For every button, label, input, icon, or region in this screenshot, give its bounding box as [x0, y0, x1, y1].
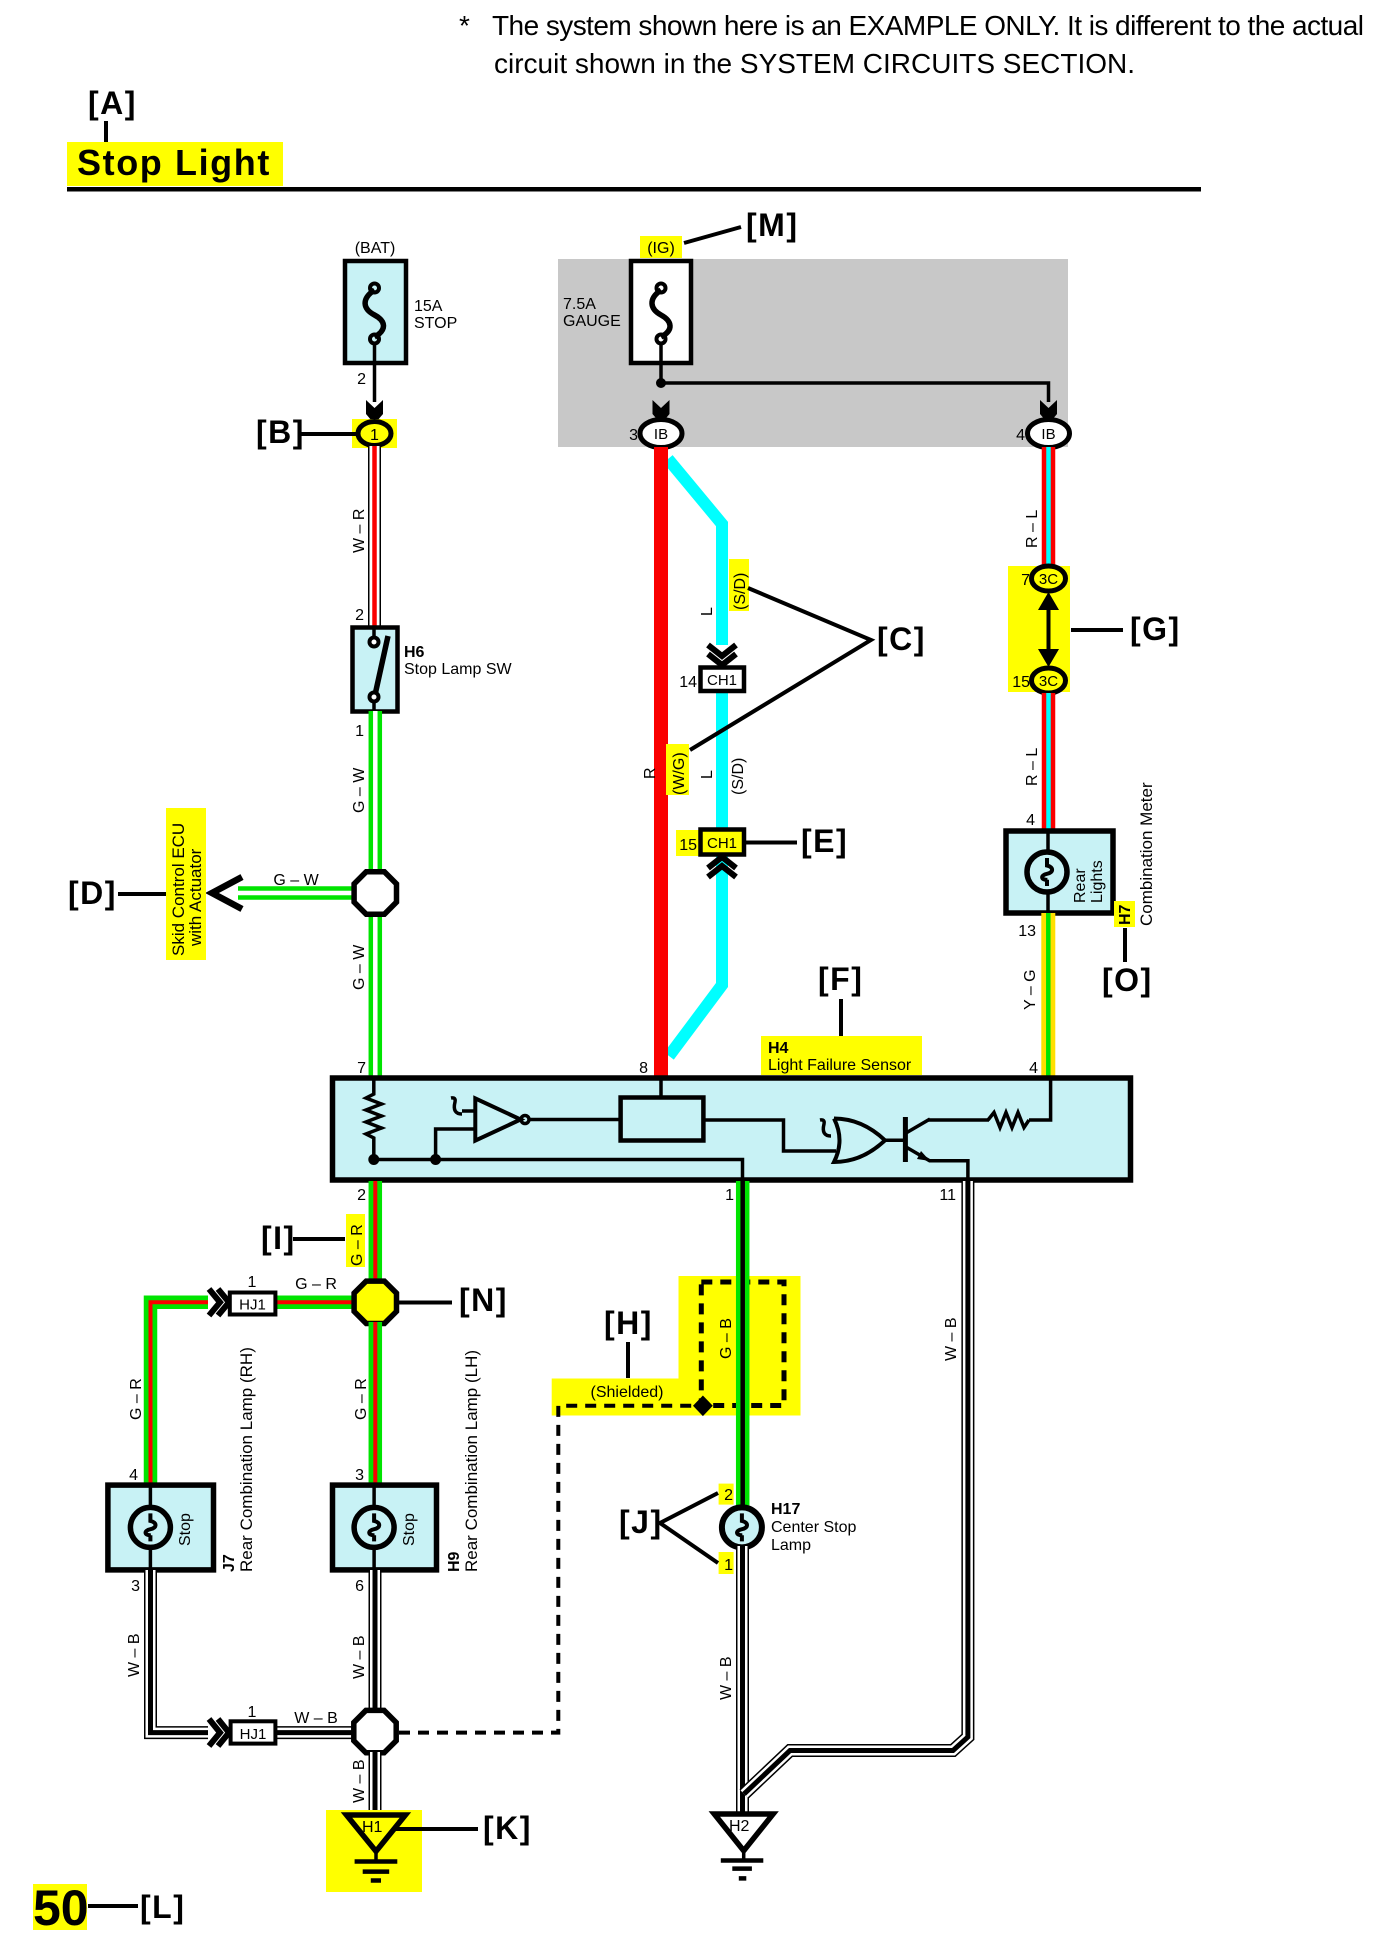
wire W-B pin 11 down [744, 1181, 968, 1794]
shielded yellow region upper [679, 1276, 801, 1416]
svg-text:6: 6 [355, 1578, 364, 1595]
svg-text:CH1: CH1 [707, 835, 737, 852]
svg-text:1: 1 [724, 1557, 733, 1574]
svg-text:IB: IB [654, 426, 668, 443]
svg-text:1: 1 [248, 1274, 257, 1291]
header note text [459, 10, 1363, 79]
shield junction diamond [693, 1396, 713, 1417]
svg-text:[I]: [I] [261, 1220, 296, 1256]
svg-text:L: L [699, 770, 716, 779]
svg-text:H17: H17 [771, 1501, 800, 1518]
wire G-W vertical H6 to sensor [369, 711, 383, 1079]
svg-text:G – W: G – W [351, 767, 368, 813]
wire fuse to connector B [373, 343, 377, 402]
junction arrows between 3C [1047, 604, 1051, 655]
svg-text:15: 15 [1012, 674, 1030, 691]
lamp H17 bulb [722, 1507, 762, 1547]
svg-text:L: L [699, 607, 716, 616]
svg-text:[F]: [F] [818, 961, 863, 997]
svg-text:[H]: [H] [604, 1305, 653, 1341]
svg-text:1: 1 [725, 1187, 734, 1204]
svg-text:[L]: [L] [140, 1889, 185, 1925]
line from label M [684, 227, 741, 243]
sensor internal emitter line [929, 1161, 968, 1180]
svg-text:1: 1 [355, 723, 364, 740]
svg-text:Center Stop: Center Stop [771, 1519, 856, 1536]
(IG) highlight [640, 236, 682, 258]
svg-text:[D]: [D] [68, 875, 117, 911]
wire L cyan middle [716, 691, 728, 831]
svg-text:[B]: [B] [256, 414, 305, 450]
svg-text:W – B: W – B [718, 1656, 735, 1700]
connector CH1 upper [701, 668, 745, 692]
svg-text:GAUGE: GAUGE [563, 313, 621, 330]
svg-text:50: 50 [33, 1880, 89, 1936]
fuse F1 element [365, 284, 383, 344]
svg-text:G – W: G – W [351, 944, 368, 990]
svg-text:G – R: G – R [295, 1276, 337, 1293]
lines from label C [690, 588, 871, 750]
svg-text:W – B: W – B [351, 1759, 368, 1803]
wire W-B J7 down [151, 1570, 209, 1733]
svg-text:Rear: Rear [1072, 868, 1089, 903]
svg-text:H2: H2 [729, 1818, 750, 1835]
svg-text:1: 1 [370, 427, 379, 444]
connector HJ1 upper [230, 1293, 276, 1315]
Skid Control ECU highlight box [166, 808, 206, 960]
sensor internal collector line [928, 1118, 989, 1122]
svg-text:[E]: [E] [801, 823, 848, 859]
label 50 highlight [33, 1884, 87, 1930]
connector 3C upper [1032, 566, 1066, 591]
svg-text:H4: H4 [768, 1040, 789, 1057]
svg-text:*: * [459, 10, 470, 41]
junction arrow into HJ1 [209, 1289, 229, 1316]
svg-text:circuit shown in the SYSTEM CI: circuit shown in the SYSTEM CIRCUITS SEC… [494, 48, 1135, 79]
svg-text:[N]: [N] [459, 1282, 508, 1318]
lines from label J [660, 1493, 718, 1563]
sensor internal hook 2 [820, 1120, 831, 1136]
switch H6 box [353, 628, 398, 712]
svg-text:(S/D): (S/D) [730, 758, 747, 795]
svg-text:[M]: [M] [746, 207, 798, 243]
svg-text:2: 2 [357, 1187, 366, 1204]
sensor internal line to pin 4 [1029, 1080, 1051, 1120]
svg-text:CH1: CH1 [707, 672, 737, 689]
line from label G [1071, 628, 1123, 632]
shield dashed tail [399, 1406, 700, 1733]
ground H1 highlight [326, 1810, 422, 1892]
line from label D [118, 892, 166, 896]
light failure sensor H4 box [333, 1078, 1131, 1180]
G-R label highlight [346, 1214, 365, 1267]
svg-text:3: 3 [131, 1578, 140, 1595]
fuse F1 15A STOP box [345, 261, 406, 363]
svg-text:7: 7 [357, 1060, 366, 1077]
svg-text:HJ1: HJ1 [240, 1726, 267, 1743]
sensor internal resistor vertical [366, 1080, 382, 1160]
Rear Lights box H7 [1006, 831, 1113, 913]
svg-text:[O]: [O] [1102, 962, 1153, 998]
shield dashed box [701, 1282, 784, 1406]
rear lights lamp [1027, 852, 1067, 892]
connector arrow into node B [366, 400, 383, 424]
sensor internal junction dot 1 [368, 1154, 379, 1165]
sensor internal junction dot 2 [430, 1154, 441, 1165]
ground H1 [347, 1815, 406, 1881]
svg-text:Rear Combination Lamp (LH): Rear Combination Lamp (LH) [462, 1350, 481, 1572]
line from label O [1123, 928, 1127, 962]
svg-text:7.5A: 7.5A [563, 296, 596, 313]
svg-text:14: 14 [679, 674, 697, 691]
wire W-B horizontal HJ1 [275, 1726, 356, 1739]
svg-text:8: 8 [639, 1060, 648, 1077]
sensor internal line inverter to comparator [529, 1118, 621, 1122]
svg-text:W – B: W – B [294, 1710, 338, 1727]
wire R-L upper [1042, 447, 1056, 567]
lamp H9 bulb [354, 1507, 394, 1547]
svg-text:4: 4 [1016, 427, 1025, 444]
svg-text:11: 11 [939, 1187, 956, 1204]
sensor internal comparator box [621, 1098, 704, 1141]
wire W-B H17 down [736, 1546, 749, 1814]
wire fuse F2 down [659, 343, 663, 385]
wire G-W horizontal to skid ECU [238, 886, 355, 900]
svg-text:Light Failure Sensor: Light Failure Sensor [768, 1057, 912, 1074]
svg-text:4: 4 [1029, 1060, 1038, 1077]
svg-text:7: 7 [1021, 572, 1030, 589]
svg-text:HJ1: HJ1 [239, 1297, 266, 1314]
node junction dot [656, 378, 666, 388]
line from label N [398, 1301, 452, 1305]
svg-text:W – B: W – B [126, 1633, 143, 1677]
shielded yellow region lower [552, 1379, 679, 1416]
wire L cyan lower [669, 854, 722, 1056]
svg-text:Stop Lamp SW: Stop Lamp SW [404, 661, 513, 678]
line from label I [293, 1237, 345, 1241]
sensor internal line OR to transistor [884, 1139, 903, 1143]
title rule [67, 187, 1201, 192]
wire R red vertical [654, 447, 668, 1079]
rear lights internal wire [1046, 831, 1050, 853]
svg-text:(S/D): (S/D) [732, 573, 749, 610]
junction arrow into HJ1 lower [209, 1719, 229, 1746]
CH1 lower highlight [676, 830, 746, 856]
fuse F2 7.5A GAUGE box [631, 261, 691, 363]
pin 1 H17 highlight [719, 1552, 734, 1574]
svg-text:Stop Light: Stop Light [77, 142, 271, 183]
node B connector 1 [358, 422, 391, 446]
wire G-R H9 branch [369, 1322, 383, 1487]
connector 3C lower [1032, 668, 1066, 693]
svg-text:STOP: STOP [414, 315, 457, 332]
svg-text:J7: J7 [221, 1554, 238, 1572]
ground H2 [714, 1814, 773, 1878]
svg-text:[C]: [C] [877, 621, 926, 657]
svg-text:(IG): (IG) [647, 240, 675, 257]
svg-text:H6: H6 [404, 644, 425, 661]
connector arrow into IB4 [1040, 400, 1057, 424]
node N octagon yellow [354, 1281, 396, 1323]
H4 highlight [761, 1036, 922, 1075]
line from label F [839, 999, 843, 1041]
svg-text:Stop: Stop [177, 1513, 194, 1546]
lamp J7 internal wire [149, 1485, 153, 1508]
svg-text:Stop: Stop [401, 1513, 418, 1546]
svg-text:R – L: R – L [1024, 510, 1041, 548]
svg-text:[G]: [G] [1130, 611, 1181, 647]
svg-text:4: 4 [129, 1467, 138, 1484]
svg-text:W – B: W – B [943, 1317, 960, 1361]
svg-text:W – R: W – R [351, 509, 368, 553]
svg-text:R – L: R – L [1024, 748, 1041, 786]
lamp H9 internal wire [372, 1485, 376, 1508]
sensor internal inverter [475, 1098, 520, 1140]
svg-text:G – B: G – B [718, 1318, 735, 1359]
connector IB right [1028, 420, 1070, 448]
svg-text:3C: 3C [1039, 673, 1058, 690]
(S/D) upper highlight [729, 559, 749, 611]
wire L cyan upper [668, 459, 722, 645]
line from label B [301, 432, 357, 436]
H7 highlight [1114, 901, 1135, 927]
sensor internal feedback line [436, 1129, 476, 1160]
svg-text:13: 13 [1018, 923, 1036, 940]
svg-text:[J]: [J] [619, 1504, 663, 1540]
wire R-L lower [1042, 693, 1056, 832]
switch H6 contacts and blade [370, 628, 389, 712]
svg-text:Y – G: Y – G [1022, 969, 1039, 1010]
fuse F2 element [652, 284, 670, 344]
tick under label A [104, 121, 108, 144]
svg-text:2: 2 [724, 1487, 733, 1504]
svg-text:3: 3 [355, 1467, 364, 1484]
junction arrow into CH1-15 [708, 857, 736, 877]
svg-text:15A: 15A [414, 298, 443, 315]
svg-text:(W/G): (W/G) [671, 752, 688, 795]
wire Y-G [1041, 913, 1055, 1079]
svg-text:H7: H7 [1117, 904, 1134, 925]
line from label H [626, 1342, 630, 1378]
svg-text:Combination Meter: Combination Meter [1137, 782, 1156, 926]
sensor internal line comparator to OR [703, 1120, 836, 1151]
svg-text:Lights: Lights [1089, 860, 1106, 903]
svg-text:Lamp: Lamp [771, 1537, 811, 1554]
instrument panel gray box [558, 259, 1068, 447]
connector HJ1 lower [231, 1721, 276, 1743]
wire to IB4 [661, 383, 1049, 402]
sensor internal resistor horizontal [988, 1113, 1029, 1128]
3C highlight box [1008, 566, 1070, 692]
svg-text:G – R: G – R [128, 1378, 145, 1420]
sensor internal bus line [374, 1160, 743, 1181]
lamp J7 bulb [130, 1507, 170, 1547]
(W/G) highlight [666, 744, 689, 795]
node B highlight [352, 419, 397, 448]
svg-text:3C: 3C [1039, 571, 1058, 588]
svg-text:The system shown here is an EX: The system shown here is an EXAMPLE ONLY… [492, 10, 1363, 41]
svg-text:2: 2 [355, 607, 364, 624]
pin 2 H17 highlight [719, 1484, 734, 1505]
svg-text:H9: H9 [446, 1551, 463, 1572]
wire G-B shielded [736, 1181, 750, 1509]
svg-text:Rear Combination Lamp (RH): Rear Combination Lamp (RH) [237, 1347, 256, 1572]
node octagon ground junction [354, 1710, 396, 1752]
svg-text:R: R [642, 767, 659, 779]
connector arrow into IB3 [653, 400, 670, 424]
line from label K [396, 1827, 478, 1831]
wire G-R left branch [151, 1302, 357, 1487]
arrowhead to skid ECU [212, 877, 242, 909]
node junction octagon [354, 872, 396, 914]
sensor internal OR gate [834, 1119, 885, 1163]
wire W-B below octagon to H1 [369, 1752, 382, 1813]
wire W-B H9 down [369, 1570, 382, 1712]
wire W-R vertical [368, 446, 381, 629]
line from 50 [88, 1904, 138, 1908]
line from label E [746, 841, 797, 845]
svg-text:2: 2 [357, 371, 366, 388]
svg-text:W – B: W – B [351, 1635, 368, 1679]
wire G-R vertical sensor to node N [369, 1181, 383, 1283]
lamp J7 box [108, 1485, 214, 1570]
svg-text:IB: IB [1041, 426, 1055, 443]
lamp H9 box [333, 1485, 437, 1570]
sensor internal hook 1 [451, 1098, 462, 1114]
junction arrow into CH1-14 [708, 645, 736, 665]
svg-text:1: 1 [248, 1704, 257, 1721]
connector IB left [640, 420, 682, 448]
sensor internal transistor [903, 1117, 908, 1162]
svg-text:H1: H1 [362, 1819, 383, 1836]
svg-text:(Shielded): (Shielded) [591, 1384, 664, 1401]
svg-text:G – R: G – R [349, 1224, 366, 1266]
svg-text:[A]: [A] [88, 85, 137, 121]
svg-text:[K]: [K] [483, 1810, 532, 1846]
title highlight [67, 142, 283, 186]
svg-text:with Actuator: with Actuator [186, 848, 205, 947]
svg-text:G – R: G – R [353, 1378, 370, 1420]
sensor internal red wire stub [659, 1078, 663, 1097]
svg-text:G – W: G – W [273, 872, 319, 889]
connector CH1 lower [701, 830, 745, 855]
svg-text:4: 4 [1026, 812, 1035, 829]
svg-text:(BAT): (BAT) [355, 240, 396, 257]
svg-text:15: 15 [679, 837, 697, 854]
svg-text:3: 3 [629, 427, 638, 444]
